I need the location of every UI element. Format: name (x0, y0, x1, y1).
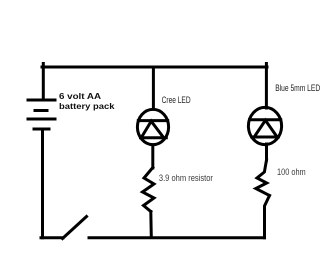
wire cree led top lead (152, 67, 155, 109)
LED D1 triangle (141, 121, 163, 137)
wire cree led bottom lead (151, 145, 154, 168)
svg-text:3.9 ohm resistor: 3.9 ohm resistor (159, 173, 213, 183)
battery B1 plate long (28, 118, 55, 121)
label 6 volt AA battery pack (59, 92, 115, 111)
wire resistor R1 bottom lead (149, 212, 153, 238)
svg-text:battery pack: battery pack (59, 102, 115, 111)
wire blue led bottom lead (265, 144, 268, 160)
svg-text:Blue 5mm LED: Blue 5mm LED (275, 83, 320, 93)
switch S1 blade (63, 217, 87, 239)
svg-text:100 ohm: 100 ohm (277, 167, 306, 177)
battery B1 plate short (35, 109, 47, 112)
wire battery positive lead (42, 64, 45, 100)
wire resistor R2 bottom lead (265, 196, 270, 238)
wire bottom left stub (41, 236, 63, 239)
wire blue led top lead (265, 64, 268, 109)
wire top bus (42, 66, 267, 69)
LED D2 bottom chord (252, 136, 278, 139)
battery B1 plate long top (28, 99, 55, 102)
svg-text:6 volt AA: 6 volt AA (59, 92, 101, 101)
resistor R2 100 ohm zigzag (256, 160, 270, 196)
wire bottom bus (89, 236, 265, 239)
LED D2 triangle (254, 120, 277, 137)
LED D2 cathode bar top chord (250, 118, 281, 121)
resistor R1 3.9 ohm zigzag (143, 168, 155, 212)
LED D1 bottom chord (141, 136, 167, 139)
wire battery negative lead (41, 130, 44, 238)
LED D2 circle (Blue 5mm LED) (248, 107, 281, 144)
battery B1 plate bottom (34, 128, 49, 131)
LED D1 circle (Cree LED) (137, 109, 168, 144)
svg-text:Cree LED: Cree LED (162, 95, 191, 105)
LED D1 cathode bar top chord (138, 119, 167, 122)
